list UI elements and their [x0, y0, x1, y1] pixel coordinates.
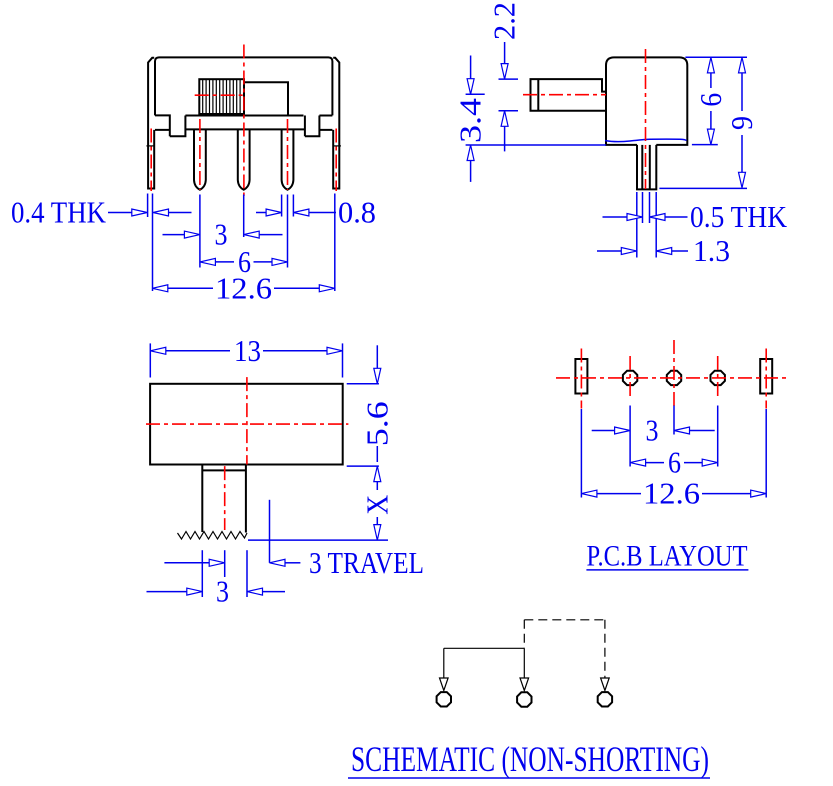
terminal 3 [598, 692, 612, 706]
side pin outer [637, 145, 656, 190]
side center line vertical [645, 49, 647, 189]
arrow terminal 1 [440, 678, 449, 691]
dimension 6 side [710, 73, 712, 88]
underline pcb title [586, 569, 748, 571]
knurl hatch lines [203, 79, 240, 114]
ext knob top [499, 78, 519, 80]
side pin inner thickness lines [641, 145, 643, 190]
svg-text:5.6: 5.6 [359, 401, 394, 446]
pcb slot right [760, 359, 772, 394]
ext stem left [201, 550, 203, 597]
ext body bottom left [466, 144, 606, 146]
ext hole3 [717, 406, 719, 467]
ext stem right [246, 550, 248, 597]
svg-text:3: 3 [215, 217, 228, 252]
svg-text:12.6: 12.6 [215, 270, 272, 305]
svg-text:1.3: 1.3 [693, 233, 730, 268]
front body cover outline [155, 57, 332, 115]
svg-text:P.C.B LAYOUT: P.C.B LAYOUT [587, 539, 748, 572]
dimension 12.6 pcb [597, 493, 641, 495]
svg-text:3 TRAVEL: 3 TRAVEL [309, 545, 424, 580]
dimension 9 side [741, 73, 743, 111]
dimension 6 pcb [646, 462, 664, 464]
stem sides [202, 465, 246, 533]
wire terminal1 vertical [443, 648, 445, 678]
extension line pin1 [199, 195, 201, 268]
center line vertical [243, 45, 245, 197]
base plate and notches [155, 115, 332, 136]
pcb hole 3 [711, 371, 725, 385]
arrow terminal 3 [601, 678, 610, 691]
dimension 12.6 line [168, 287, 213, 289]
terminal 2 [517, 692, 531, 706]
slot left center line [580, 349, 582, 409]
ext body bottom right [347, 465, 379, 467]
svg-text:3: 3 [216, 574, 229, 609]
arrow terminal 2 [520, 678, 529, 691]
pcb slot left [575, 359, 587, 394]
dimension 5.6 [376, 345, 378, 368]
pin 2 [238, 130, 250, 190]
dimension 3 TRAVEL [164, 562, 209, 564]
knurled slider knob [199, 79, 244, 114]
hole 3 center line [717, 356, 719, 399]
stem center line [224, 466, 226, 530]
FRONT VIEW [11, 45, 376, 306]
ext slot right [765, 409, 767, 498]
pcb hole 1 [623, 371, 637, 385]
ext slot left [580, 409, 582, 498]
pcb horizontal center line [556, 377, 789, 379]
slot right center line [765, 349, 767, 409]
dimension 3 stem [147, 591, 187, 593]
middle center line [673, 340, 675, 409]
leader 0.4 THK left [108, 212, 132, 214]
extension line right leg [334, 194, 336, 292]
svg-text:0.8: 0.8 [338, 195, 376, 230]
blue wavy break line [605, 139, 687, 141]
svg-text:12.6: 12.6 [643, 476, 700, 511]
extension line pin3 left edge [281, 195, 283, 217]
dimension 0.5 THK [603, 216, 628, 218]
dimension 1.3 [597, 250, 621, 252]
knob center line horizontal [195, 94, 246, 96]
stem top step line [202, 469, 246, 471]
svg-text:SCHEMATIC (NON-SHORTING): SCHEMATIC (NON-SHORTING) [351, 739, 709, 779]
plain knob block [244, 82, 288, 115]
PCB LAYOUT VIEW [556, 340, 789, 572]
svg-text:0.5 THK: 0.5 THK [690, 199, 788, 234]
svg-text:13: 13 [234, 333, 261, 368]
extension line pin3 center [287, 195, 289, 268]
underline schematic title [348, 777, 710, 779]
leader 0.4 THK right [168, 212, 192, 214]
left bracket bend tick [146, 145, 154, 147]
svg-text:0.4 THK: 0.4 THK [11, 195, 107, 230]
ext stem end long [248, 539, 388, 541]
svg-text:6: 6 [693, 93, 728, 107]
ext 13 right [342, 343, 344, 377]
ext knob centerline [466, 93, 485, 95]
extension line pin3 right edge [292, 195, 294, 217]
pin 1 [194, 130, 206, 190]
extension line leg left outer [147, 194, 149, 218]
left mounting bracket [148, 58, 154, 189]
side body outline [606, 57, 687, 144]
terminal 1 [437, 692, 451, 706]
svg-text:2.2: 2.2 [487, 2, 522, 40]
ext 13 left [149, 343, 151, 377]
pin 3 [282, 130, 294, 190]
right bracket bend tick [333, 145, 341, 147]
extension line leg left inner [152, 194, 154, 292]
pcb hole 2 [667, 371, 681, 385]
wire common horizontal [444, 647, 525, 649]
ext pin bottom right [659, 187, 747, 189]
svg-text:3: 3 [646, 413, 659, 448]
side knob center line [523, 94, 606, 96]
ext body bottom right [692, 144, 718, 146]
ext knob bottom [499, 110, 519, 112]
knob end cap line [537, 79, 539, 111]
ext hole1 [629, 406, 631, 467]
top view horizontal center line [146, 423, 348, 425]
hole 1 center line [629, 356, 631, 399]
right leg center line [335, 129, 337, 192]
leader 0.8 right [309, 212, 337, 214]
dimension 6 line [215, 261, 234, 263]
pin 3 center line [287, 119, 289, 190]
dashed wire horizontal [524, 619, 605, 621]
stem break zigzag [178, 532, 248, 540]
SIDE VIEW [453, 2, 788, 268]
leader 0.8 left [256, 212, 267, 214]
wire terminal2 vertical [523, 648, 525, 678]
pin 1 center line [199, 119, 201, 190]
extension line pin2 [243, 195, 245, 238]
dimension 3 pcb [592, 430, 615, 432]
dimension 3 line [163, 234, 185, 236]
svg-text:3.4: 3.4 [453, 97, 488, 143]
SCHEMATIC VIEW [348, 620, 710, 779]
ext body top right [347, 383, 379, 385]
stem centerline ext [224, 550, 226, 577]
ext body top right [685, 56, 747, 58]
travel boundary line [269, 500, 271, 563]
ext middle [673, 406, 675, 435]
svg-text:9: 9 [724, 116, 759, 130]
dashed wire vertical right [604, 620, 606, 678]
top view vertical center line [246, 377, 248, 464]
left leg center line [150, 129, 152, 192]
right mounting bracket [333, 58, 339, 189]
top view body [150, 384, 343, 465]
side knob [531, 79, 607, 111]
TOP VIEW [146, 333, 424, 609]
dashed wire vertical middle [523, 620, 525, 649]
ext pin lines below [636, 192, 638, 258]
svg-text:X: X [359, 495, 394, 515]
svg-text:6: 6 [668, 445, 681, 480]
dimension 13 [166, 350, 230, 352]
